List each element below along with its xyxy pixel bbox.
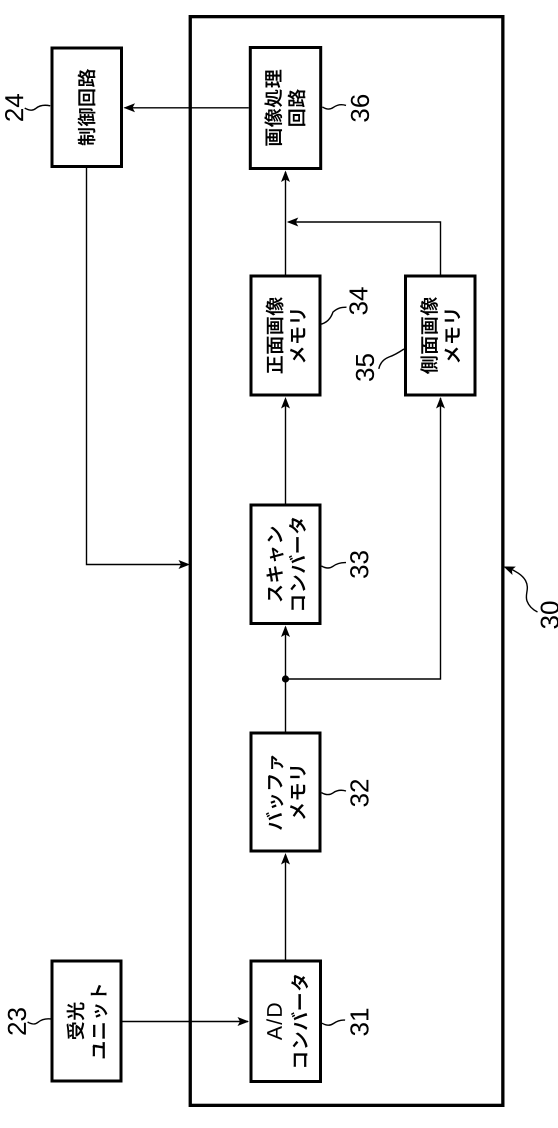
text 受光 [67, 1002, 85, 1039]
text A/D [266, 1003, 282, 1040]
text バッファ [266, 755, 284, 829]
text メモリ (32) [290, 767, 306, 819]
text コンバータ (31) [291, 975, 308, 1067]
label 31 [350, 1009, 368, 1036]
arrowhead into 31 top [238, 1017, 250, 1026]
box 35 side image memory [406, 276, 476, 395]
leader squiggle 30 [509, 568, 538, 612]
label 36 [351, 95, 369, 122]
arrowhead joining wire 34-36 [287, 218, 299, 227]
arrowhead onto frame top [179, 560, 191, 569]
wire 31 -> 32 [285, 855, 287, 960]
wire 33 -> 34 [285, 399, 287, 504]
leader squiggle 35 [379, 349, 404, 369]
wire 24 -> frame [87, 168, 188, 565]
text 正面画像 [266, 297, 284, 373]
arrowhead of label 30 onto frame [502, 562, 516, 575]
outer frame of block 30 [190, 17, 503, 1106]
text 側面画像 [420, 297, 438, 374]
leader squiggle 33 [322, 563, 347, 568]
arrowhead into 24 bottom [124, 103, 136, 112]
label 33 [350, 551, 368, 578]
box 32 buffer memory [251, 733, 320, 851]
label 32 [350, 780, 368, 807]
wire 35 -> join [289, 222, 441, 275]
text 回路 [288, 89, 306, 126]
arrowhead into 32 [281, 853, 290, 865]
text コンバータ (33) [289, 518, 306, 610]
leader squiggle 36 [322, 105, 346, 109]
box 34 front image memory [251, 276, 320, 395]
label 24 [5, 94, 23, 121]
label 35 [356, 354, 374, 381]
leader squiggle 31 [322, 1020, 345, 1025]
wire 36 -> 24 [125, 107, 249, 109]
wire junction -> 35 [286, 398, 441, 679]
text 制御回路 [78, 69, 96, 146]
label 30 [541, 602, 558, 629]
label 23 [8, 1008, 26, 1034]
junction dot [282, 675, 289, 682]
text ユニット [91, 985, 108, 1058]
text 画像処理 [264, 70, 282, 146]
box 31 A/D converter [251, 961, 321, 1082]
leader squiggle 23 [28, 1019, 51, 1024]
box 23 light receiving unit [52, 961, 121, 1081]
text メモリ (35) [444, 310, 460, 362]
wire 32 -> 33 [285, 627, 287, 732]
box 36 image processing circuit [250, 48, 320, 169]
leader squiggle 34 [320, 307, 347, 324]
leader squiggle 32 [322, 790, 347, 794]
wire 34 -> 36 [285, 172, 287, 275]
arrowhead into 34 [281, 397, 290, 409]
wire 23 -> 31 [123, 1021, 249, 1023]
arrowhead into 35 [436, 397, 445, 409]
leader squiggle 24 [25, 105, 51, 110]
text スキャン [266, 527, 283, 602]
text メモリ (34) [290, 310, 306, 362]
box 33 scan converter [251, 505, 320, 624]
arrowhead into 33 [281, 626, 290, 638]
box 24 control circuit [52, 48, 122, 167]
label 34 [349, 287, 367, 314]
arrowhead into 36 [281, 171, 290, 183]
